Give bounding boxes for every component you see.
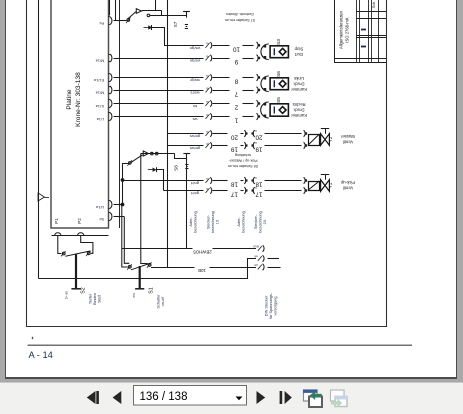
svg-text:Ventil: Ventil xyxy=(343,139,353,144)
valve Y1 pilot stem xyxy=(325,175,327,180)
wire 2BWHO5 to DIN xyxy=(122,248,256,250)
wire step down to S8 cap xyxy=(175,154,187,159)
S8 pivot contact xyxy=(129,162,132,165)
svg-text:S9 Schalter ein-on: S9 Schalter ein-on xyxy=(228,164,258,168)
pin U/1a connector on PCB xyxy=(110,201,112,209)
wire vertical from S8 down to S1 xyxy=(141,154,148,264)
svg-text:Stecker-: Stecker- xyxy=(254,214,258,229)
pin M/1a connector on PCB xyxy=(110,54,112,62)
plug pair X2.18 xyxy=(244,177,246,184)
button next page xyxy=(257,391,266,404)
svg-text:BU5: BU5 xyxy=(253,245,259,249)
svg-text:U/1a: U/1a xyxy=(95,205,104,210)
sensor S5 diamond xyxy=(279,107,286,114)
svg-text:b: b xyxy=(206,187,208,191)
wire vertical bus to valve rows xyxy=(167,0,169,267)
svg-text:7: 7 xyxy=(234,90,238,97)
plug pair X1.2 xyxy=(257,100,259,107)
svg-text:ws: ws xyxy=(193,117,198,122)
switch S2 plunger xyxy=(75,254,77,288)
wire stub from page top B xyxy=(115,0,117,21)
switch S1 terminal bar xyxy=(135,288,144,290)
junction node U/1a xyxy=(121,203,125,207)
plug pair X1.8 xyxy=(257,74,259,81)
sensor S3 body xyxy=(270,46,288,58)
contact 1 xyxy=(206,114,210,119)
svg-text:136 / 138: 136 / 138 xyxy=(140,391,188,403)
capacitive sensor S7 electrode xyxy=(183,11,190,13)
svg-text:Stop: Stop xyxy=(294,47,303,52)
lamp P2 xyxy=(78,233,84,235)
wire from page top into relay xyxy=(155,0,157,11)
pin L/1a connector on PCB xyxy=(110,113,112,121)
connector K1 on left bus xyxy=(38,193,45,201)
svg-text:19: 19 xyxy=(231,146,239,153)
svg-text:bn: bn xyxy=(193,104,197,109)
button previous view xyxy=(304,390,318,401)
wire row 18 xyxy=(123,180,204,182)
svg-text:A - 14: A - 14 xyxy=(29,350,53,360)
svg-text:ein: ein xyxy=(132,293,136,297)
svg-text:S6: S6 xyxy=(276,71,282,77)
relay switch arm xyxy=(128,12,137,19)
wire step down to S7 cap xyxy=(162,11,187,16)
svg-text:Krone-Nr: 303-138: Krone-Nr: 303-138 xyxy=(75,72,82,127)
svg-text:b+ an: b+ an xyxy=(65,291,69,299)
svg-text:Pick-up: Pick-up xyxy=(340,180,355,185)
wire ws/gr label xyxy=(213,77,230,79)
wire upper branch xyxy=(142,10,162,12)
svg-text:a: a xyxy=(206,100,208,104)
wire arrow to row 17 xyxy=(156,170,163,191)
svg-text:Ader-: Ader- xyxy=(237,217,241,227)
wire S8 cap down to DIN xyxy=(186,161,188,248)
wire bn label xyxy=(213,103,230,105)
title block table xyxy=(335,0,387,63)
svg-text:m: m xyxy=(254,176,257,180)
contact 10 xyxy=(206,43,210,48)
svg-text:b: b xyxy=(206,142,208,146)
capacitive sensor S8 electrode xyxy=(183,153,190,155)
footer rule xyxy=(28,344,412,346)
contact 20 xyxy=(206,131,210,136)
wire Sd row xyxy=(114,216,125,218)
wire P1 down xyxy=(58,235,62,253)
svg-text:Druck: Druck xyxy=(293,108,305,113)
svg-text:Rechts: Rechts xyxy=(292,102,305,107)
contact 19 xyxy=(206,143,210,148)
svg-text:Wasser: Wasser xyxy=(340,134,355,139)
svg-text:17: 17 xyxy=(255,191,263,198)
switch S1 arm xyxy=(131,263,151,270)
S8 contact circles xyxy=(151,152,154,155)
svg-text:ws/gn: ws/gn xyxy=(190,46,200,51)
wire stub from page top A xyxy=(109,0,111,16)
pin Pd connector on PCB xyxy=(110,17,112,25)
svg-text:ISO 2768-mK: ISO 2768-mK xyxy=(345,17,350,43)
sensor S3 indicator xyxy=(273,48,275,55)
svg-text:ws/gr: ws/gr xyxy=(190,78,200,83)
S7 electrode plate marks xyxy=(185,24,188,26)
svg-text:20: 20 xyxy=(231,134,239,141)
svg-text:Schalter: Schalter xyxy=(157,294,161,309)
sensor S6 indicator xyxy=(273,80,275,87)
svg-text:m: m xyxy=(254,129,257,133)
wire row 19 xyxy=(167,145,203,147)
wire Pd row xyxy=(114,20,127,22)
svg-text:S8: S8 xyxy=(174,165,179,171)
wire row 9 xyxy=(114,58,204,60)
svg-text:bezeichnung: bezeichnung xyxy=(259,211,263,233)
svg-text:P1: P1 xyxy=(54,218,59,224)
switch S1 contacts xyxy=(128,265,131,268)
svg-text:19: 19 xyxy=(255,146,263,153)
svg-text:a: a xyxy=(206,130,208,134)
svg-text:Start: Start xyxy=(98,294,102,303)
sensor S6 body xyxy=(270,78,288,90)
wire junction down to U/1a xyxy=(122,180,124,205)
svg-text:ge/ws: ge/ws xyxy=(190,146,200,151)
svg-text:S5: S5 xyxy=(276,97,282,103)
wire U/1a down to S1 xyxy=(122,205,128,268)
wire Sd down to S1 xyxy=(124,217,129,264)
svg-text:Links: Links xyxy=(294,76,304,81)
contact circle xyxy=(147,14,150,17)
lamp P1 xyxy=(55,233,61,235)
contact 8 xyxy=(206,75,210,80)
S8 switch arm xyxy=(131,155,142,163)
svg-text:E1/1a: E1/1a xyxy=(93,78,104,83)
plug pair X1.9 xyxy=(257,55,259,62)
svg-text:M/1a: M/1a xyxy=(95,91,104,96)
svg-text:I1/1a: I1/1a xyxy=(95,104,104,109)
plug pair X1.10 xyxy=(257,42,259,49)
svg-text:b: b xyxy=(206,113,208,117)
svg-text:Ventil: Ventil xyxy=(343,185,353,190)
wire row 7 xyxy=(114,90,204,92)
svg-text:P2: P2 xyxy=(77,218,82,224)
svg-text:M/1a: M/1a xyxy=(95,59,104,64)
button previous page xyxy=(113,391,122,404)
sensor S5 connector shell xyxy=(261,102,269,118)
wire bus to DIN pin 2 xyxy=(39,259,257,279)
wire row 17 xyxy=(164,190,204,192)
plug pair X2.19 xyxy=(244,142,246,149)
title block entry marks xyxy=(361,29,366,31)
svg-text:Kammer: Kammer xyxy=(290,87,306,92)
svg-text:a: a xyxy=(206,42,208,46)
svg-text:bezeichnung: bezeichnung xyxy=(194,211,198,233)
svg-text:2: 2 xyxy=(234,104,238,111)
wire ws/gn label xyxy=(213,45,230,47)
page number box xyxy=(134,386,247,406)
svg-text:L/1a: L/1a xyxy=(96,117,104,122)
wire ws/rs label xyxy=(213,90,230,92)
svg-text:1X: 1X xyxy=(216,219,220,224)
svg-text:20: 20 xyxy=(255,134,263,141)
svg-text:bezeichnung: bezeichnung xyxy=(242,211,246,233)
pin I1/1a connector on PCB xyxy=(110,100,112,108)
wire arrow to row 10 xyxy=(152,28,165,46)
svg-text:Allgemeintoleranzen: Allgemeintoleranzen xyxy=(339,10,344,49)
svg-text:Ader-: Ader- xyxy=(189,217,193,227)
wire - left vertical bus xyxy=(38,0,40,279)
svg-text:bezeichnung: bezeichnung xyxy=(211,211,215,233)
contact 17 xyxy=(206,188,210,193)
svg-text:ws/ge: ws/ge xyxy=(189,59,200,64)
plug pair X2.17 xyxy=(244,187,246,194)
page box dropdown arrow xyxy=(236,397,243,401)
wire ws label xyxy=(213,116,230,118)
svg-text:Pick-up / Wasser-: Pick-up / Wasser- xyxy=(228,158,258,162)
contact 2 xyxy=(206,101,210,106)
contact arrow head xyxy=(136,9,141,14)
svg-text:Y2: Y2 xyxy=(328,136,333,142)
DIN pin 2 xyxy=(258,256,262,261)
button last page xyxy=(280,391,283,404)
wire S8 upper branch xyxy=(141,153,175,155)
DIN pin 1 xyxy=(258,246,262,251)
relay coil arrow symbol xyxy=(144,27,149,29)
contact 18 xyxy=(206,178,210,183)
valve Y1 pin contacts xyxy=(304,177,306,183)
svg-text:18: 18 xyxy=(231,181,239,188)
valve Y2 pilot stem xyxy=(325,129,327,134)
sensor S6 diamond xyxy=(279,80,286,87)
svg-text:S2: S2 xyxy=(81,287,87,293)
wire inner vertical at board edge xyxy=(119,0,121,228)
S8 contact arrow xyxy=(143,151,148,156)
svg-text:ge/rt: ge/rt xyxy=(190,191,199,196)
svg-text:gn/rt: gn/rt xyxy=(190,181,199,186)
svg-text:10B: 10B xyxy=(198,268,206,273)
sensor S5 indicator xyxy=(273,107,275,114)
S8 electrode plate marks xyxy=(185,164,188,166)
svg-text:S3: S3 xyxy=(276,39,282,45)
svg-text:m: m xyxy=(254,186,257,190)
svg-text:Taster: Taster xyxy=(89,293,93,304)
svg-text:Binden: Binden xyxy=(93,293,97,305)
switch S2 contacts xyxy=(62,252,65,255)
svg-text:Pd: Pd xyxy=(100,21,105,26)
contact 7 xyxy=(206,88,210,93)
plug pair X1.1 xyxy=(257,113,259,120)
drawing border frame xyxy=(27,0,387,327)
button first page xyxy=(87,391,96,404)
svg-text:S1: S1 xyxy=(149,287,155,293)
relay contact K pivot xyxy=(127,19,130,22)
valve Y1 body xyxy=(321,180,325,192)
svg-text:9: 9 xyxy=(234,58,238,65)
svg-text:Gurtvorb.-Binden: Gurtvorb.-Binden xyxy=(226,12,254,16)
wire row 8 xyxy=(114,77,204,79)
svg-text:on-off: on-off xyxy=(161,296,165,307)
valve Y2 pin contacts xyxy=(304,130,306,136)
wire row 1 xyxy=(114,116,204,118)
svg-text:2BWHO5: 2BWHO5 xyxy=(193,249,212,254)
svg-text:Platine: Platine xyxy=(66,89,73,109)
valve Y2 coil xyxy=(309,135,320,146)
button next view (disabled) xyxy=(331,390,345,401)
plug pair X2.20 xyxy=(244,130,246,137)
switch S1 plunger xyxy=(139,266,141,288)
svg-text:b5: b5 xyxy=(254,263,258,267)
contact 9 xyxy=(206,56,210,61)
valve Y1 coil xyxy=(309,182,320,191)
PCB connector strip line xyxy=(52,235,109,237)
wire ws/ge label xyxy=(213,58,230,60)
svg-text:b: b xyxy=(206,86,208,90)
svg-text:Y1: Y1 xyxy=(328,182,333,188)
PCB board outline (Platine) xyxy=(51,0,109,228)
svg-text:8: 8 xyxy=(234,78,238,85)
svg-text:S7: S7 xyxy=(173,21,178,27)
wire row 10 xyxy=(164,45,204,47)
S8 coil arrow symbol xyxy=(148,169,153,171)
pin Sd connector on PCB xyxy=(110,213,112,221)
svg-text:ws/rs: ws/rs xyxy=(190,91,199,96)
sensor S3 connector shell xyxy=(261,44,269,60)
svg-text:versorgung: versorgung xyxy=(274,297,278,316)
svg-text:m: m xyxy=(254,141,257,145)
switch S2 terminal bar xyxy=(71,288,80,290)
valve Y2 body xyxy=(321,134,325,146)
svg-text:S7 Schalter ein-on: S7 Schalter ein-on xyxy=(225,18,255,22)
svg-text:1: 1 xyxy=(234,117,238,124)
svg-text:Sd: Sd xyxy=(100,217,105,222)
svg-text:a: a xyxy=(206,177,208,181)
svg-text:Gurt: Gurt xyxy=(294,52,303,57)
wire arm to bus xyxy=(123,164,129,181)
pin M/1a connector on PCB xyxy=(110,86,112,94)
wire P2 down xyxy=(81,235,93,253)
sensor S5 body xyxy=(270,104,288,116)
svg-text:b: b xyxy=(206,54,208,58)
plug pair X1.7 xyxy=(257,87,259,94)
svg-text:DIN Stecker: DIN Stecker xyxy=(265,295,269,316)
pin E1/1a connector on PCB xyxy=(110,74,112,82)
svg-text:b6: b6 xyxy=(254,255,258,259)
svg-text:10: 10 xyxy=(233,45,241,52)
wire 10B from S1 to DIN xyxy=(151,267,256,269)
svg-text:schaltung: schaltung xyxy=(235,153,251,157)
svg-text:2X: 2X xyxy=(263,219,267,224)
wire row 20 xyxy=(167,133,203,135)
svg-text:für Spannungs-: für Spannungs- xyxy=(269,292,273,319)
DIN pin 3 xyxy=(258,265,262,270)
svg-text:a: a xyxy=(206,74,208,78)
junction node xyxy=(121,178,125,182)
svg-text:Stecker-: Stecker- xyxy=(207,214,211,229)
svg-text:gn/ws: gn/ws xyxy=(190,134,200,139)
svg-text:Sch: Sch xyxy=(372,2,376,9)
svg-text:Druck: Druck xyxy=(293,81,305,86)
sensor S3 diamond xyxy=(279,48,286,55)
sensor S6 connector shell xyxy=(261,76,269,92)
svg-text:Kammer: Kammer xyxy=(290,113,306,118)
mark above footer xyxy=(32,337,34,339)
switch S2 arm xyxy=(65,251,90,256)
wire row 2 xyxy=(114,103,204,105)
svg-text:17: 17 xyxy=(231,191,239,198)
wire U/1a row xyxy=(114,204,123,206)
